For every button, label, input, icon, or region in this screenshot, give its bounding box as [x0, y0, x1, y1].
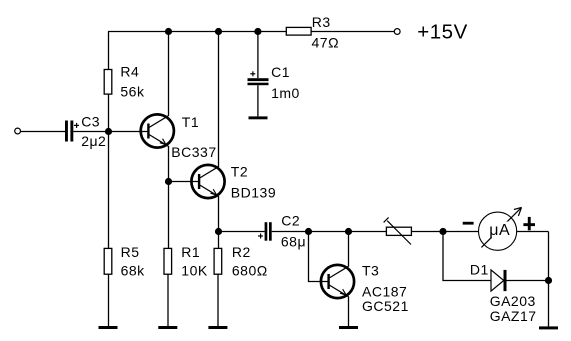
resistor R5: [104, 248, 112, 274]
diode D1: [491, 270, 507, 291]
meter U1 (μA): [479, 207, 522, 250]
svg-text:R1: R1: [181, 244, 200, 260]
wire: T2 emitter down: [218, 197, 220, 232]
value 2μ2: [81, 133, 106, 149]
value GAZ17: [490, 308, 537, 324]
svg-text:2μ2: 2μ2: [81, 133, 106, 149]
junction: rail / T2 collector: [215, 28, 222, 35]
svg-text:68μ: 68μ: [281, 234, 306, 250]
wire: top supply rail: [108, 31, 286, 33]
label: plus sign: [523, 217, 535, 230]
wire: C1 bottom lead: [257, 85, 259, 116]
capacitor C2: [258, 222, 272, 241]
value BD139: [231, 185, 276, 201]
wire: lower rail from R2 node to C2: [219, 231, 265, 233]
svg-text:1m0: 1m0: [271, 85, 300, 101]
wire: T3 base drop: [309, 232, 330, 282]
svg-text:R2: R2: [232, 244, 251, 260]
label D1: [470, 261, 489, 277]
svg-text:GC521: GC521: [362, 298, 409, 314]
ground (right rail): [539, 326, 558, 329]
wire: T1 collector to rail: [168, 32, 170, 117]
svg-text:D1: D1: [470, 261, 489, 277]
label R5: [121, 244, 140, 260]
capacitor C3: [65, 121, 79, 142]
wire: right rail down: [548, 232, 550, 327]
svg-text:GAZ17: GAZ17: [490, 308, 537, 324]
wire: input to C3: [21, 131, 65, 133]
ground (R1): [158, 326, 177, 329]
svg-text:10K: 10K: [181, 263, 208, 279]
ground (T3): [339, 326, 358, 329]
wire: R5 to ground: [108, 274, 110, 326]
value 68k: [121, 263, 146, 279]
value 10K: [181, 263, 208, 279]
junction: C2 / T3 base branch: [305, 228, 312, 235]
value BC337: [171, 144, 216, 160]
svg-text:T2: T2: [231, 164, 248, 180]
svg-text:T1: T1: [182, 114, 199, 130]
ground (C1): [249, 116, 268, 119]
wire: junction to R1: [168, 182, 170, 249]
wire: C3 to T1 base: [73, 131, 148, 133]
wire: R4 top lead: [108, 32, 110, 70]
wire: T3 collector up: [348, 232, 350, 267]
svg-text:R4: R4: [120, 64, 139, 80]
label R2: [232, 244, 251, 260]
junction: T1 emitter / T2 base: [165, 178, 172, 185]
label C3: [81, 113, 100, 129]
svg-text:GA203: GA203: [490, 293, 536, 309]
svg-text:R5: R5: [121, 244, 140, 260]
svg-text:+15V: +15V: [417, 20, 467, 43]
label R4: [120, 64, 139, 80]
label T2: [231, 164, 248, 180]
value 68μ: [281, 234, 306, 250]
label R1: [181, 244, 200, 260]
wire: D1 branch drop: [443, 232, 491, 281]
svg-text:C1: C1: [271, 64, 290, 80]
svg-text:68k: 68k: [121, 263, 146, 279]
label C2: [281, 213, 300, 229]
wire: preset to meter minus node: [411, 231, 478, 233]
junction: rail / T1 collector: [165, 28, 172, 35]
wire: meter to right rail: [517, 231, 549, 233]
ground (R5): [99, 326, 118, 329]
svg-text:BD139: BD139: [231, 185, 276, 201]
svg-text:C3: C3: [81, 113, 100, 129]
resistor R2: [214, 248, 222, 274]
value 47Ω: [312, 34, 340, 50]
capacitor C1: [248, 71, 269, 85]
label T3: [362, 263, 379, 279]
svg-text:BC337: BC337: [171, 144, 216, 160]
variable resistor (preset): [384, 217, 412, 244]
value 56k: [120, 83, 145, 99]
transistor T3 (AC187/GC521): [321, 265, 354, 298]
svg-text:C2: C2: [281, 213, 300, 229]
svg-text:R3: R3: [312, 14, 331, 30]
label R3: [312, 14, 331, 30]
value GA203: [490, 293, 536, 309]
junction: base node R4/R5: [105, 128, 112, 135]
value AC187: [362, 284, 407, 300]
label T1: [182, 114, 199, 130]
junction: T2 emitter / R2 / C2: [215, 228, 222, 235]
wire: D1 to right rail: [507, 280, 549, 282]
junction: rail / C1: [254, 28, 261, 35]
svg-text:μA: μA: [489, 222, 510, 239]
wire: T2 collector to rail: [218, 32, 220, 167]
svg-text:47Ω: 47Ω: [312, 34, 340, 50]
junction: D1 / right rail: [545, 277, 552, 284]
terminal: +15V open circle: [394, 29, 400, 35]
wire: R2 to ground: [217, 274, 219, 326]
transistor T2 (BD139): [191, 165, 224, 198]
resistor R3: [286, 27, 311, 35]
wire: R1 to ground: [167, 274, 169, 326]
resistor R4: [104, 70, 112, 95]
wire: T3 emitter to ground: [348, 297, 350, 327]
wire: T2 base: [169, 181, 200, 183]
wire: C1 top lead: [257, 32, 259, 79]
wire: junction to R2: [218, 232, 220, 249]
wire: R4 bottom to base node: [108, 94, 110, 131]
wire: R3 to +15V terminal: [311, 31, 394, 33]
wire: C2 to variable resistor: [272, 231, 387, 233]
terminal: input open circle: [15, 128, 21, 134]
svg-text:T3: T3: [362, 263, 379, 279]
wire: T1 emitter down: [168, 146, 170, 182]
value 1m0: [271, 85, 300, 101]
value 680Ω: [232, 263, 268, 279]
ground (R2): [208, 326, 227, 329]
resistor R1: [164, 248, 172, 274]
svg-text:56k: 56k: [120, 83, 145, 99]
svg-text:680Ω: 680Ω: [232, 263, 268, 279]
value GC521: [362, 298, 409, 314]
wire: base node to R5: [108, 132, 110, 249]
label: +15V: [417, 20, 467, 43]
junction: meter minus / D1 branch: [439, 228, 446, 235]
junction: T3 collector branch: [345, 228, 352, 235]
label C1: [271, 64, 290, 80]
label: minus sign: [463, 222, 474, 225]
transistor T1 (BC337): [141, 114, 174, 147]
